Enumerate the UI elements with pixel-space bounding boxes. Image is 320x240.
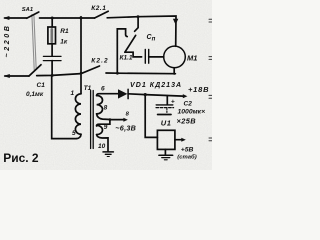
svg-text:М1: М1 [187,53,197,62]
svg-text:9: 9 [104,124,108,131]
svg-text:6: 6 [101,86,105,93]
svg-text:1: 1 [71,90,75,97]
svg-text:К2.1: К2.1 [91,5,106,12]
svg-text:R1: R1 [60,28,69,35]
svg-text:Т1: Т1 [84,85,92,92]
svg-text:1000мк×: 1000мк× [178,109,206,116]
svg-text:10: 10 [98,143,106,150]
svg-text:+5В: +5В [181,147,194,154]
svg-text:К1.1: К1.1 [120,55,133,62]
svg-text:0,1мк: 0,1мк [26,91,44,98]
svg-text:~220В: ~220В [2,24,11,58]
svg-text:+: + [171,99,175,106]
svg-text:Рис. 2: Рис. 2 [3,151,39,165]
svg-text:+18В: +18В [188,85,209,94]
svg-text:(стаб): (стаб) [177,154,196,161]
svg-text:VD1 КД213А: VD1 КД213А [130,82,182,89]
svg-text:×25В: ×25В [177,117,197,126]
svg-text:~6,3В: ~6,3В [115,124,136,133]
svg-text:SA1: SA1 [22,7,33,13]
svg-text:8: 8 [104,104,108,111]
svg-text:1к: 1к [60,39,68,46]
svg-text:С1: С1 [37,82,46,89]
svg-text:U1: U1 [161,118,172,127]
svg-text:С2: С2 [184,100,193,107]
svg-text:5: 5 [72,130,76,137]
svg-text:К2.2: К2.2 [91,57,108,64]
